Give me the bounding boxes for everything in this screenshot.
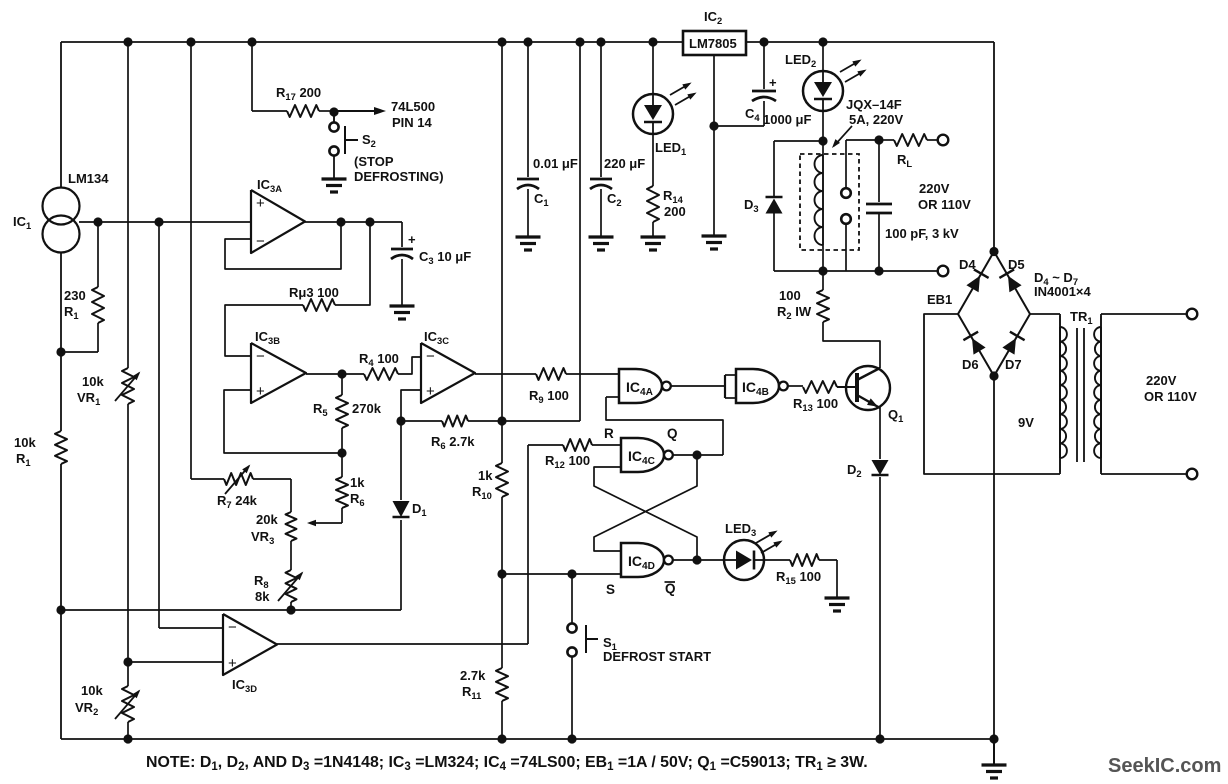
svg-text:+: + — [426, 383, 435, 400]
svg-text:R6 2.7k: R6 2.7k — [431, 434, 475, 451]
svg-text:100 pF, 3 kV: 100 pF, 3 kV — [885, 226, 959, 241]
svg-text:S: S — [606, 582, 615, 597]
svg-text:EB1: EB1 — [927, 292, 952, 307]
svg-text:DEFROST START: DEFROST START — [603, 649, 711, 664]
svg-text:0.01 μF: 0.01 μF — [533, 156, 578, 171]
svg-text:R7 24k: R7 24k — [217, 493, 258, 510]
svg-text:D6: D6 — [962, 357, 979, 372]
svg-text:10k: 10k — [82, 374, 104, 389]
svg-text:+: + — [256, 195, 265, 212]
svg-text:R17 200: R17 200 — [276, 85, 321, 102]
svg-text:Q: Q — [667, 426, 678, 441]
svg-text:Rμ3 100: Rμ3 100 — [289, 285, 339, 300]
svg-text:200: 200 — [664, 204, 686, 219]
svg-text:10k: 10k — [14, 435, 36, 450]
svg-text:R2 IW: R2 IW — [777, 304, 812, 321]
svg-text:+: + — [408, 232, 416, 247]
svg-text:(STOP: (STOP — [354, 154, 394, 169]
svg-text:OR 110V: OR 110V — [1144, 389, 1197, 404]
svg-text:R: R — [604, 426, 614, 441]
svg-text:8k: 8k — [255, 589, 270, 604]
svg-text:NOTE: D1, D2, AND D3 =1N4148;: NOTE: D1, D2, AND D3 =1N4148; IC3 =LM324… — [146, 754, 868, 773]
svg-text:9V: 9V — [1018, 415, 1034, 430]
svg-text:1k: 1k — [478, 468, 493, 483]
svg-text:−: − — [256, 233, 265, 250]
svg-text:IN4001×4: IN4001×4 — [1034, 284, 1092, 299]
svg-text:DEFROSTING): DEFROSTING) — [354, 169, 444, 184]
svg-text:D4: D4 — [959, 257, 976, 272]
svg-text:−: − — [256, 348, 265, 365]
svg-text:10k: 10k — [81, 683, 103, 698]
svg-text:230: 230 — [64, 288, 86, 303]
svg-text:20k: 20k — [256, 512, 278, 527]
svg-text:2.7k: 2.7k — [460, 668, 486, 683]
svg-text:D7: D7 — [1005, 357, 1022, 372]
svg-text:1k: 1k — [350, 475, 365, 490]
svg-text:D5: D5 — [1008, 257, 1025, 272]
svg-text:+: + — [769, 75, 777, 90]
svg-text:220V: 220V — [1146, 373, 1177, 388]
svg-text:100: 100 — [779, 288, 801, 303]
svg-text:+: + — [256, 383, 265, 400]
svg-text:270k: 270k — [352, 401, 382, 416]
svg-text:PIN 14: PIN 14 — [392, 115, 433, 130]
svg-text:SeekIC.com: SeekIC.com — [1108, 755, 1221, 777]
svg-text:R9 100: R9 100 — [529, 388, 569, 405]
svg-text:74L500: 74L500 — [391, 99, 435, 114]
svg-text:5A, 220V: 5A, 220V — [849, 112, 904, 127]
svg-text:LM134: LM134 — [68, 171, 109, 186]
svg-text:C3 10 μF: C3 10 μF — [419, 249, 471, 266]
svg-text:R13 100: R13 100 — [793, 396, 838, 413]
svg-text:+: + — [228, 655, 237, 672]
svg-text:R12 100: R12 100 — [545, 453, 590, 470]
svg-text:1000 μF: 1000 μF — [763, 112, 811, 127]
svg-text:R4 100: R4 100 — [359, 351, 399, 368]
svg-text:OR 110V: OR 110V — [918, 197, 971, 212]
svg-text:−: − — [426, 348, 435, 365]
svg-text:R15 100: R15 100 — [776, 569, 821, 586]
svg-text:Q: Q — [665, 581, 676, 596]
svg-text:LM7805: LM7805 — [689, 36, 737, 51]
svg-text:220V: 220V — [919, 181, 950, 196]
svg-text:JQX–14F: JQX–14F — [846, 97, 902, 112]
svg-text:220 μF: 220 μF — [604, 156, 645, 171]
svg-text:−: − — [228, 619, 237, 636]
